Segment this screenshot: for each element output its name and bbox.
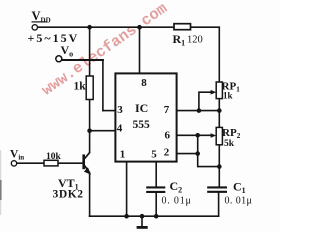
wire: emitter drop	[89, 174, 91, 217]
IC U1 555 box	[115, 73, 176, 161]
wire: pin1 drop	[126, 162, 128, 217]
svg-text:5k: 5k	[224, 139, 235, 149]
wire: 10k to base	[58, 162, 83, 164]
wire: RP1 wiper arm	[199, 92, 213, 110]
wire: pin5 drop to C2	[155, 162, 157, 188]
wire: ground rail	[90, 215, 219, 217]
capacitor C1 plates	[207, 187, 227, 191]
svg-text:10k: 10k	[46, 152, 62, 162]
label VDD	[32, 9, 51, 25]
svg-text:1: 1	[120, 148, 126, 160]
wire: pin8 drop from rail	[139, 27, 141, 73]
svg-text:C2: C2	[170, 179, 183, 195]
wire: Vin to 10k	[17, 162, 44, 164]
transistor VT1 emitter diagonal	[85, 166, 90, 174]
wire: C2 bottom drop	[155, 192, 157, 216]
ground symbol	[137, 216, 148, 227]
wire: pins 6-2 vertical link and to C1 node	[198, 135, 220, 166]
svg-text:5: 5	[151, 149, 157, 161]
label VDD underline	[32, 21, 48, 23]
wire: VDD rail	[37, 26, 174, 28]
node: pin1 / rail	[124, 214, 129, 219]
wire: pin7 horizontal	[177, 110, 220, 112]
svg-text:Vin: Vin	[10, 149, 24, 162]
node: rail / 1k drop	[87, 25, 92, 30]
node: rail / pin8	[137, 25, 142, 30]
terminal Vo	[56, 56, 62, 62]
wire: pin6 to RP2 wiper	[177, 134, 212, 136]
svg-text:4: 4	[117, 123, 123, 135]
svg-text:Vo: Vo	[61, 43, 74, 59]
wire: RP1 bottom to RP2 top	[218, 99, 220, 128]
svg-text:C1: C1	[233, 180, 246, 196]
wire: C1 bottom drop	[218, 192, 220, 216]
node: C2 / rail	[154, 214, 159, 219]
node: pin2 / link	[195, 151, 200, 156]
potentiometer RP1 wiper arrowhead	[211, 90, 217, 95]
wire: pin4 entry	[90, 130, 116, 132]
svg-text:IC: IC	[135, 101, 148, 115]
terminal Vin	[11, 161, 16, 166]
resistor 10k body	[44, 160, 58, 166]
svg-text:8: 8	[141, 77, 147, 89]
wire: R1 right to corner and down to RP1	[191, 27, 220, 82]
svg-text:1k: 1k	[223, 91, 233, 101]
potentiometer RP1 body	[216, 82, 222, 99]
svg-text:0. 01μ: 0. 01μ	[225, 196, 253, 207]
left edge scan artifact	[0, 150, 1, 215]
svg-text:0. 01μ: 0. 01μ	[162, 196, 192, 207]
node: pin7 / RP1 wiper	[197, 108, 202, 113]
transistor VT1 collector diagonal	[85, 152, 90, 158]
svg-text:3: 3	[117, 104, 123, 116]
node: pin7 / RP1 bottom	[217, 108, 222, 113]
potentiometer RP2 body	[216, 127, 222, 144]
svg-text:2: 2	[164, 147, 170, 159]
svg-text:3DK2: 3DK2	[53, 189, 84, 201]
node: pin4 / collector / 1k	[87, 128, 92, 133]
resistor 1k (collector) body	[86, 76, 93, 100]
svg-text:1k: 1k	[74, 81, 87, 93]
transistor VT1 emitter arrowhead	[84, 167, 91, 175]
svg-text:+5~15V: +5~15V	[28, 31, 80, 45]
wire: 1k bottom to collector node	[89, 100, 91, 152]
wire: Vo horizontal	[62, 59, 103, 61]
terminal VDD	[32, 25, 37, 30]
wire: rail drop to 1k	[89, 27, 91, 76]
wire: pin2 horizontal	[177, 153, 198, 155]
svg-text:6: 6	[165, 130, 171, 142]
transistor VT1 base bar	[82, 154, 85, 169]
wire: Vo riser down to pin3	[102, 60, 104, 111]
resistor R1 body	[174, 24, 191, 30]
svg-text:555: 555	[133, 119, 151, 131]
node: RP2 bottom / C1	[217, 164, 222, 169]
node: pin6 / link	[195, 133, 200, 138]
capacitor C2 plates	[146, 187, 165, 192]
wire: RP2 bottom down to C1 top	[218, 145, 220, 187]
svg-text:7: 7	[164, 104, 170, 116]
svg-text:120: 120	[187, 35, 203, 46]
potentiometer RP2 wiper arrowhead	[211, 133, 217, 138]
node: ground / rail	[140, 214, 145, 219]
wire: pin3 entry	[103, 110, 116, 112]
svg-text:R1: R1	[173, 32, 186, 48]
IC pin labels	[117, 77, 171, 161]
transistor VT1	[84, 152, 90, 173]
